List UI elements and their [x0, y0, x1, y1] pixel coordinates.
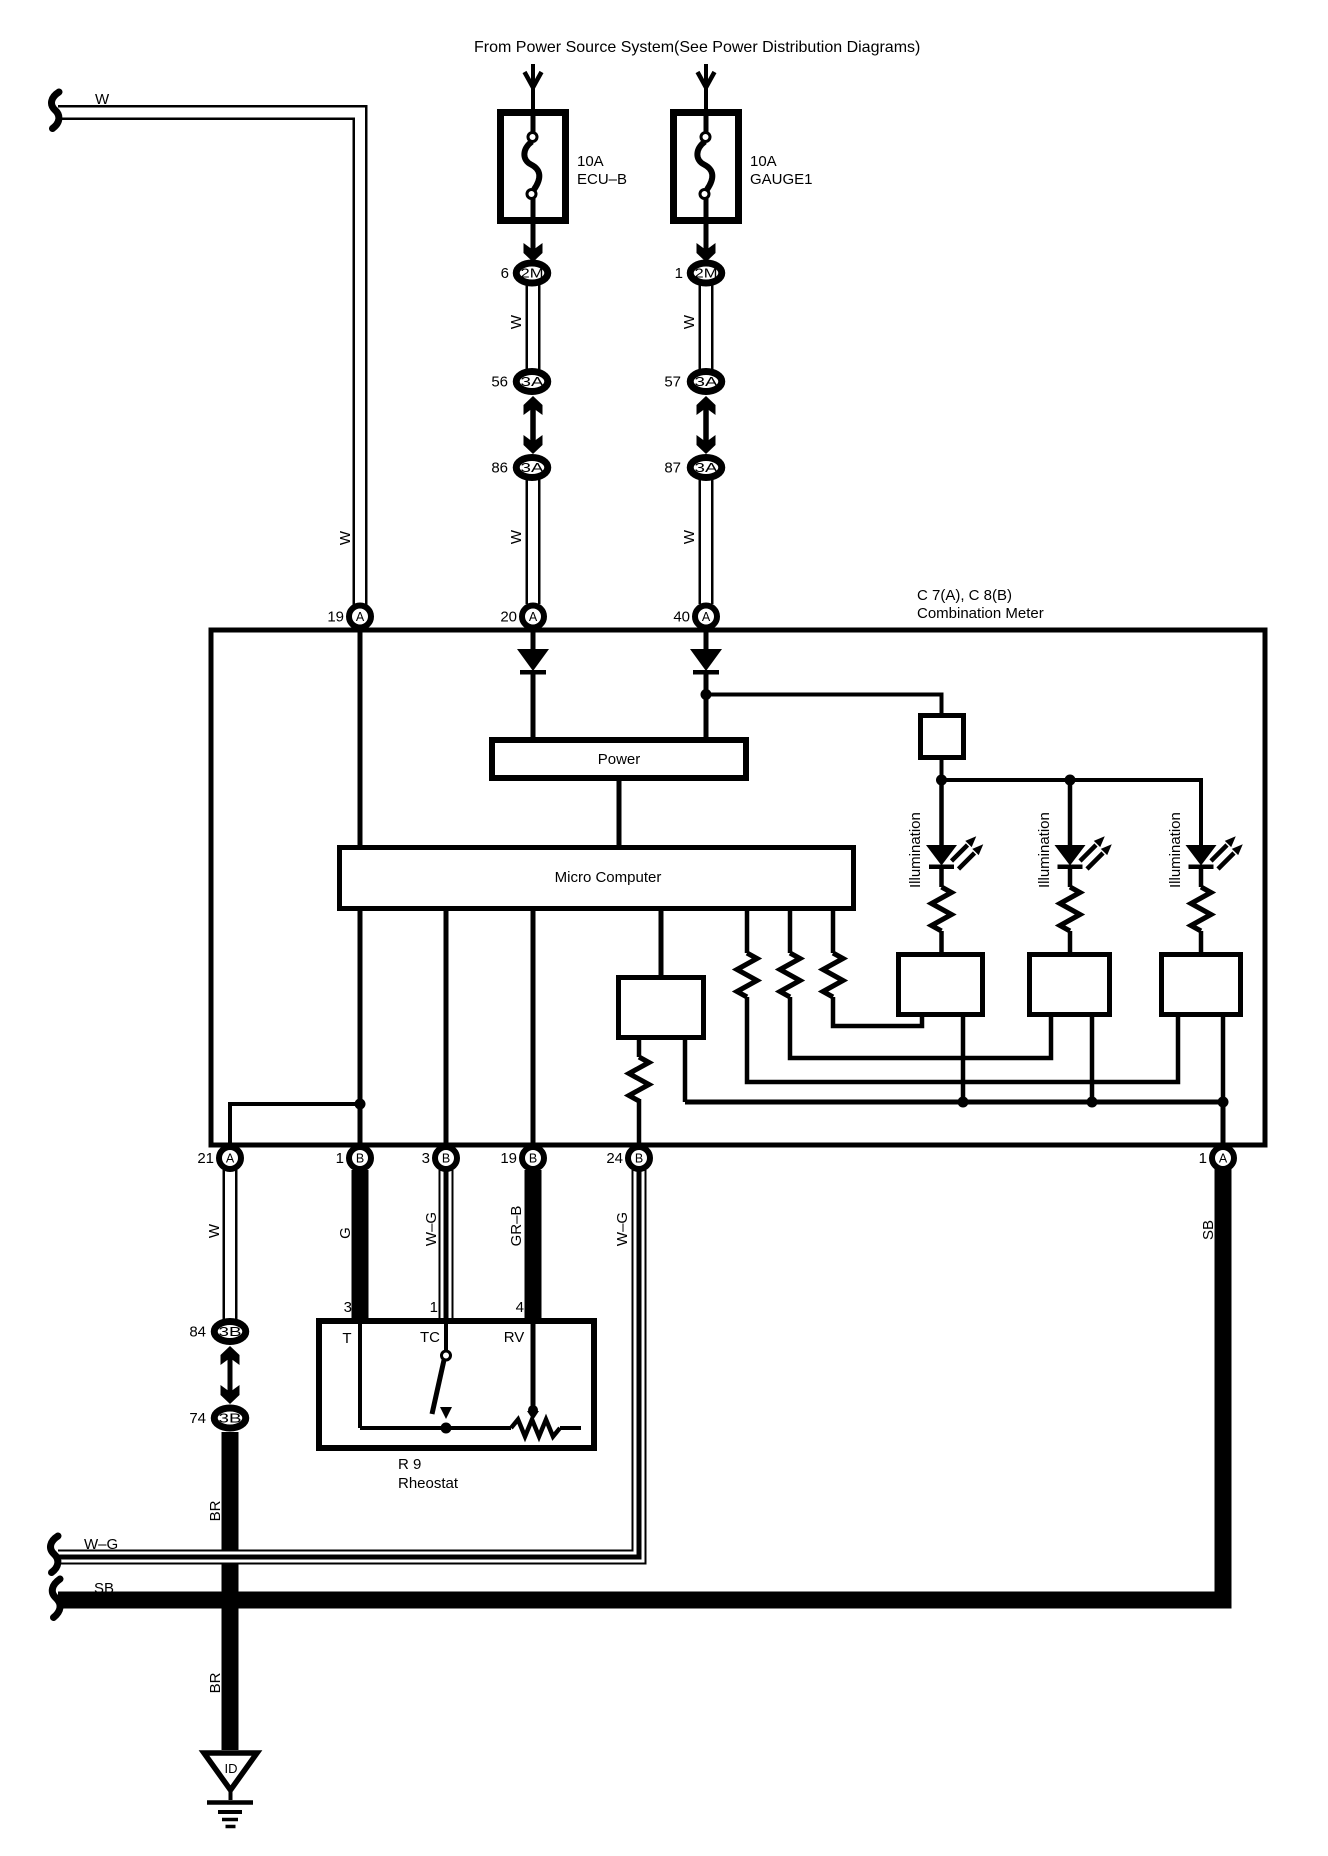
- svg-text:Micro Computer: Micro Computer: [555, 869, 662, 886]
- svg-text:R 9: R 9: [398, 1456, 421, 1473]
- svg-text:A: A: [1219, 1152, 1228, 1166]
- svg-text:10A: 10A: [750, 153, 777, 170]
- svg-text:T: T: [342, 1330, 351, 1347]
- svg-text:24: 24: [606, 1150, 623, 1167]
- svg-text:2M: 2M: [521, 267, 544, 281]
- svg-text:RV: RV: [504, 1329, 525, 1346]
- svg-text:B: B: [635, 1152, 643, 1166]
- svg-text:W–G: W–G: [423, 1212, 440, 1246]
- svg-text:B: B: [356, 1152, 364, 1166]
- svg-text:Illumination: Illumination: [907, 812, 924, 888]
- svg-text:1: 1: [675, 265, 683, 282]
- svg-text:1: 1: [430, 1299, 438, 1316]
- svg-text:A: A: [702, 610, 711, 624]
- svg-text:TC: TC: [420, 1329, 440, 1346]
- svg-text:From Power Source System(See P: From Power Source System(See Power Distr…: [474, 39, 920, 56]
- svg-text:21: 21: [197, 1150, 214, 1167]
- svg-text:40: 40: [673, 609, 690, 626]
- svg-text:6: 6: [501, 265, 509, 282]
- svg-text:W: W: [206, 1223, 223, 1238]
- svg-text:W: W: [681, 314, 698, 329]
- svg-text:G: G: [337, 1227, 354, 1239]
- svg-text:W: W: [508, 529, 525, 544]
- svg-text:86: 86: [491, 460, 508, 477]
- svg-text:SB: SB: [94, 1580, 114, 1597]
- svg-text:GR–B: GR–B: [508, 1206, 525, 1247]
- svg-text:3B: 3B: [219, 1325, 242, 1339]
- svg-text:1: 1: [336, 1150, 344, 1167]
- svg-text:B: B: [529, 1152, 537, 1166]
- svg-text:20: 20: [500, 609, 517, 626]
- svg-text:84: 84: [189, 1324, 206, 1341]
- svg-text:19: 19: [500, 1150, 517, 1167]
- svg-text:ECU–B: ECU–B: [577, 171, 627, 188]
- svg-text:56: 56: [491, 374, 508, 391]
- svg-text:Power: Power: [598, 751, 641, 768]
- svg-text:10A: 10A: [577, 153, 604, 170]
- svg-text:A: A: [226, 1152, 235, 1166]
- svg-text:W–G: W–G: [614, 1212, 631, 1246]
- svg-text:W–G: W–G: [84, 1536, 118, 1553]
- svg-text:3A: 3A: [695, 375, 719, 389]
- svg-text:57: 57: [664, 374, 681, 391]
- svg-text:19: 19: [327, 609, 344, 626]
- svg-text:87: 87: [664, 460, 681, 477]
- svg-text:W: W: [95, 91, 110, 108]
- svg-text:W: W: [337, 530, 354, 545]
- svg-text:A: A: [529, 610, 538, 624]
- svg-text:74: 74: [189, 1410, 206, 1427]
- svg-text:1: 1: [1199, 1150, 1207, 1167]
- svg-text:A: A: [356, 610, 365, 624]
- svg-text:3: 3: [422, 1150, 430, 1167]
- svg-text:3A: 3A: [521, 375, 545, 389]
- svg-text:4: 4: [516, 1299, 524, 1316]
- svg-text:BR: BR: [207, 1672, 224, 1693]
- svg-text:Illumination: Illumination: [1167, 812, 1184, 888]
- svg-text:2M: 2M: [695, 267, 718, 281]
- svg-text:Combination Meter: Combination Meter: [917, 605, 1044, 622]
- svg-text:BR: BR: [207, 1500, 224, 1521]
- svg-text:SB: SB: [1200, 1220, 1217, 1240]
- svg-text:3: 3: [344, 1299, 352, 1316]
- svg-text:W: W: [508, 314, 525, 329]
- svg-text:Illumination: Illumination: [1036, 812, 1053, 888]
- svg-text:3A: 3A: [521, 461, 545, 475]
- svg-text:GAUGE1: GAUGE1: [750, 171, 813, 188]
- svg-text:ID: ID: [225, 1761, 238, 1776]
- svg-text:3A: 3A: [695, 461, 719, 475]
- svg-text:Rheostat: Rheostat: [398, 1475, 459, 1492]
- svg-text:C 7(A), C 8(B): C 7(A), C 8(B): [917, 587, 1012, 604]
- svg-text:B: B: [442, 1152, 450, 1166]
- svg-text:3B: 3B: [219, 1412, 242, 1426]
- svg-text:W: W: [681, 529, 698, 544]
